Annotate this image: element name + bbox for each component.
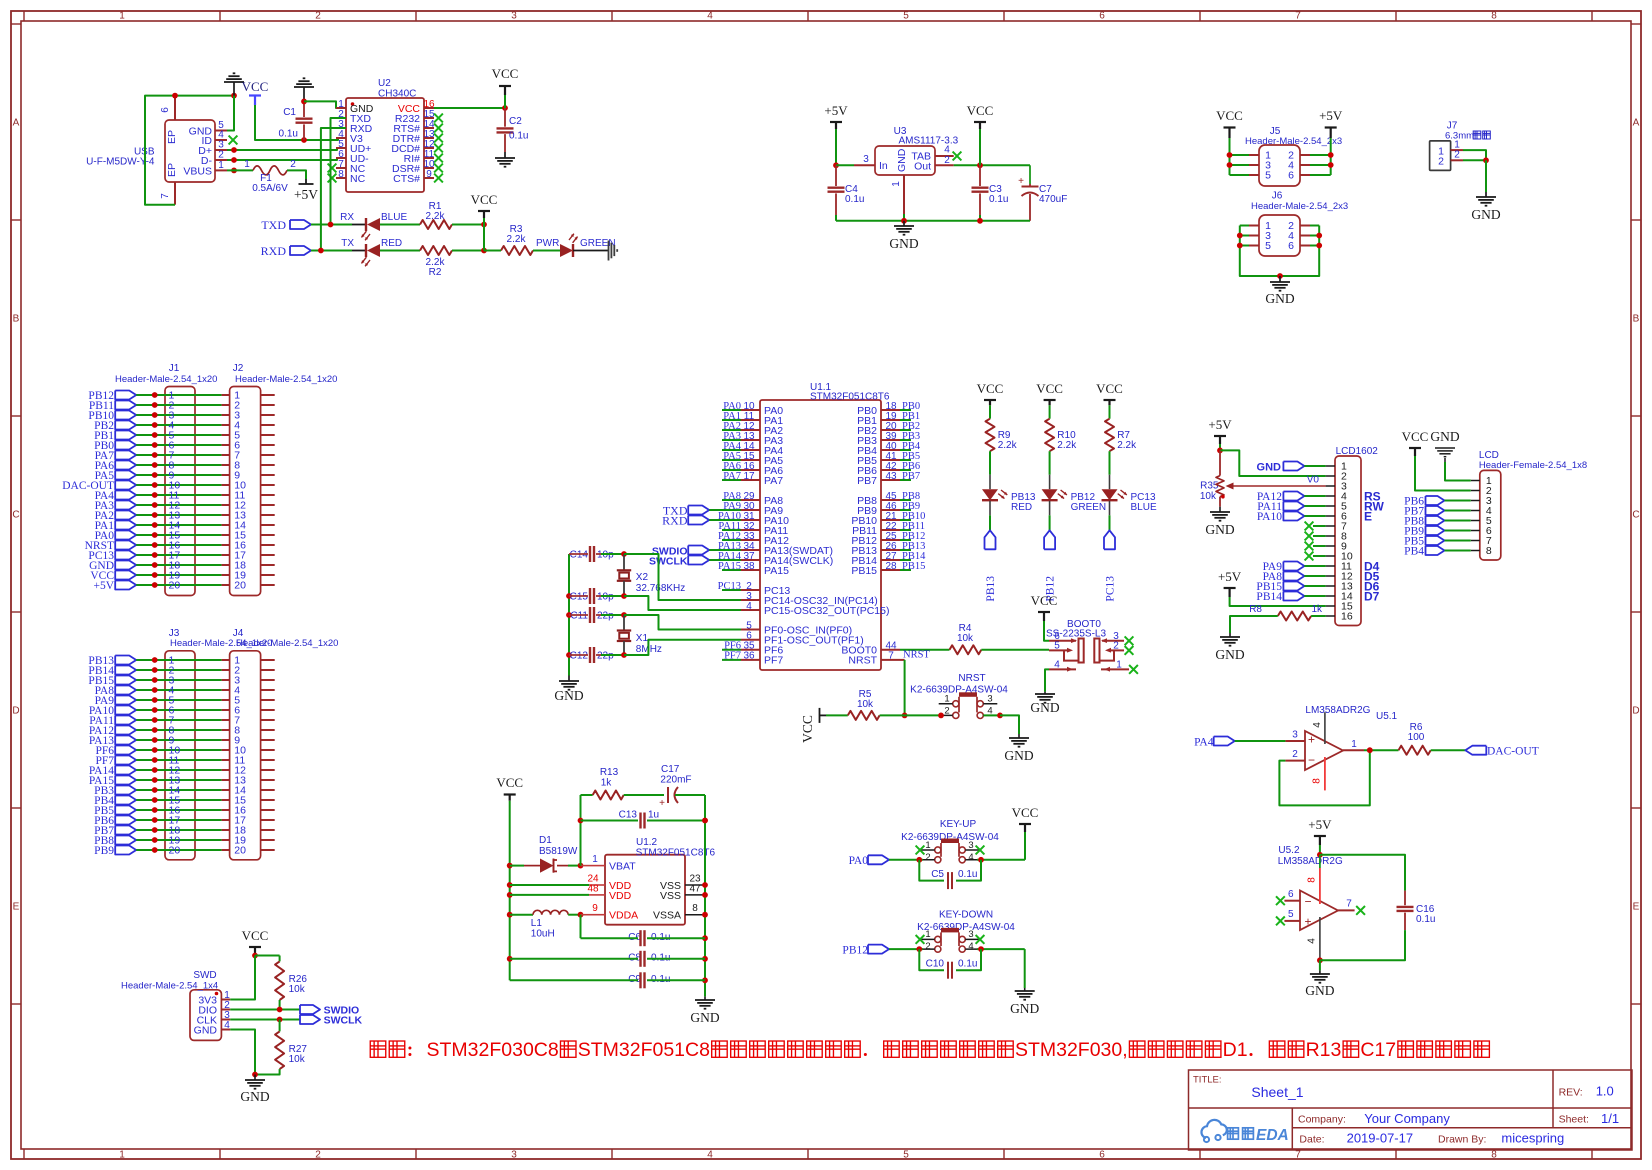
- svg-text:8: 8: [338, 169, 344, 180]
- net flag DAC-OUT (J1 pin 10): [115, 481, 136, 490]
- wire VCC16 to C2: [434, 107, 505, 109]
- svg-text:8: 8: [1491, 11, 1497, 22]
- svg-text:+: +: [1304, 915, 1311, 929]
- svg-text:7: 7: [160, 193, 171, 199]
- resistor R26 10k: [255, 955, 280, 957]
- wire Out to VCC rail: [954, 164, 1030, 166]
- svg-text:5: 5: [1288, 909, 1294, 920]
- wire J1 row 13: [136, 514, 221, 516]
- wire J1 row 11: [136, 494, 221, 496]
- crystal X1 8MHz: [623, 615, 625, 631]
- net flag PB8: [1426, 516, 1445, 525]
- wire J3 row 5: [136, 699, 221, 701]
- svg-text:17: 17: [743, 471, 755, 482]
- net flag TXD: [290, 220, 311, 229]
- capacitor C16 0.1u: [1320, 855, 1405, 891]
- J7 pin 2: [1451, 159, 1463, 161]
- svg-text:0.1u: 0.1u: [1416, 914, 1435, 925]
- svg-text:8: 8: [1486, 545, 1492, 557]
- svg-text:GREEN: GREEN: [1071, 502, 1107, 513]
- vertical VCC to PWR row: [483, 225, 485, 251]
- svg-text:B: B: [13, 314, 20, 325]
- net flag PB7 (J3 pin 18): [115, 826, 136, 835]
- junction dots on USB data pins: [231, 147, 237, 153]
- net flag SWDIO: [300, 1005, 320, 1014]
- J4 pin 8 stub: [222, 729, 230, 731]
- svg-text:4: 4: [1312, 722, 1323, 728]
- svg-text:VDD: VDD: [609, 890, 632, 902]
- svg-text:GND: GND: [690, 1010, 719, 1025]
- svg-text:C13: C13: [619, 810, 638, 821]
- svg-text:VCC: VCC: [1036, 381, 1063, 396]
- CH340C pin 13 DTR#: [424, 137, 434, 139]
- svg-text:RXD: RXD: [261, 244, 287, 258]
- U1.1 pin 44 BOOT0: [881, 649, 900, 651]
- net flag PA9 (J3 pin 5): [115, 696, 136, 705]
- U1.1 pin 31 PA10: [741, 519, 760, 521]
- net flag NRST (J1 pin 16): [115, 541, 136, 550]
- svg-text:LCD1602: LCD1602: [1336, 446, 1379, 457]
- svg-text:8: 8: [692, 903, 698, 914]
- svg-text:BLUE: BLUE: [1131, 502, 1157, 513]
- svg-text:VBAT: VBAT: [609, 861, 636, 873]
- LCD header pin 5: [1471, 520, 1480, 522]
- svg-text:10k: 10k: [289, 1054, 306, 1065]
- svg-text:C17: C17: [1360, 1039, 1396, 1061]
- U1.1 pin 30 PA9: [741, 509, 760, 511]
- wire J3 row 3: [136, 679, 221, 681]
- LCD1602 pin 15: [1326, 605, 1335, 607]
- svg-text:9: 9: [592, 903, 598, 914]
- wire GND to pin1: [1445, 462, 1471, 481]
- wire to R2: [380, 250, 420, 252]
- U1.1 pin 10 PA0: [741, 409, 760, 411]
- svg-text:4: 4: [707, 1150, 713, 1161]
- svg-text:D1: D1: [1223, 1039, 1248, 1061]
- svg-text:C14: C14: [570, 550, 589, 561]
- U1.1 pin 34 PA13(SWDAT): [741, 549, 760, 551]
- U1.1 pin 46 PB9: [881, 509, 900, 511]
- J2 pin 20 stub: [222, 584, 230, 586]
- svg-text:Your Company: Your Company: [1364, 1111, 1450, 1126]
- svg-text:GND: GND: [1471, 207, 1500, 222]
- net flag PB14: [1283, 592, 1304, 601]
- SWD pin 2 DIO: [221, 1009, 230, 1011]
- svg-text:CTS#: CTS#: [393, 173, 420, 185]
- net flag PB7: [1426, 506, 1445, 515]
- svg-text:VCC: VCC: [1031, 593, 1058, 608]
- svg-text:VCC: VCC: [496, 775, 523, 790]
- svg-text:C2: C2: [509, 116, 522, 127]
- power flag +5V: [305, 179, 307, 184]
- U1.1 pin 6 PF1-OSC_OUT(PF1): [741, 639, 760, 641]
- wire 3V3 to VCC: [230, 956, 255, 1000]
- svg-text:2: 2: [944, 155, 950, 166]
- wire DIO row: [230, 1009, 300, 1011]
- svg-text:Header-Male-2.54_1x20: Header-Male-2.54_1x20: [235, 374, 337, 385]
- ground J6: [1279, 276, 1281, 282]
- svg-text:C11: C11: [570, 611, 588, 622]
- wire PB12 to button: [889, 948, 923, 950]
- svg-text:U5.2: U5.2: [1278, 845, 1300, 856]
- wire NRST down to R5 row: [900, 659, 905, 661]
- svg-text:8: 8: [1312, 778, 1323, 784]
- fuse F1: [227, 169, 253, 171]
- svg-text:100: 100: [1408, 732, 1425, 743]
- svg-text:+5V: +5V: [1208, 417, 1232, 432]
- net flag PA11: [1283, 502, 1304, 511]
- svg-text:PB9: PB9: [94, 845, 114, 857]
- wire button pin4 to VCC: [977, 859, 1025, 861]
- J2 pin 14 stub: [222, 524, 230, 526]
- svg-text:2: 2: [1454, 150, 1460, 161]
- net flag PA3 (J1 pin 12): [115, 501, 136, 510]
- net flag PA0 (J1 pin 15): [115, 531, 136, 540]
- svg-text:GND: GND: [554, 688, 583, 703]
- U5.2 pin 4 (V-): [1319, 917, 1321, 960]
- wire PA4 to pin3: [1235, 740, 1286, 742]
- svg-text:L1: L1: [531, 918, 543, 929]
- net flag PA8 (J3 pin 4): [115, 686, 136, 695]
- ground BOOT0: [1044, 692, 1046, 694]
- IC U2 CH340C: [346, 98, 424, 192]
- svg-text:470uF: 470uF: [1039, 194, 1067, 205]
- svg-text:STM32F030,: STM32F030,: [1015, 1039, 1128, 1061]
- wire J1 row 12: [136, 504, 221, 506]
- svg-text:20: 20: [234, 580, 246, 592]
- wire J1 row 17: [136, 554, 221, 556]
- svg-text:7: 7: [1346, 899, 1352, 910]
- svg-text:Sheet:: Sheet:: [1559, 1114, 1589, 1126]
- U1.2 pin 1 VBAT: [589, 865, 605, 867]
- svg-text:GND: GND: [194, 1024, 218, 1036]
- svg-text:GND: GND: [1030, 700, 1059, 715]
- CH340C pin 8 NC: [336, 177, 346, 179]
- J4 pin 15 stub: [222, 799, 230, 801]
- USB pin 5 GND: [215, 130, 227, 132]
- wire R4 to switch: [981, 649, 1049, 651]
- J2 pin 19 stub: [222, 574, 230, 576]
- svg-text:1: 1: [891, 181, 902, 187]
- svg-text:GND: GND: [1010, 1001, 1039, 1016]
- J2 pin 16 stub: [222, 544, 230, 546]
- net flag PB8 (J3 pin 19): [115, 836, 136, 845]
- svg-text:8: 8: [1491, 1150, 1497, 1161]
- wire TXD row: [311, 224, 352, 226]
- no-connect rows 7-10: [1305, 522, 1314, 531]
- net flag SWCLK: [300, 1015, 320, 1024]
- J6 pin 5: [1249, 245, 1259, 247]
- net flag PA8: [1283, 572, 1304, 581]
- LCD header pin 1: [1471, 480, 1480, 482]
- svg-text:6: 6: [1288, 889, 1294, 900]
- svg-text:NRST: NRST: [903, 650, 930, 661]
- net flag PA6 (J1 pin 8): [115, 461, 136, 470]
- J2 pin 6 stub: [222, 444, 230, 446]
- U3 pin 2 Out: [935, 164, 954, 166]
- J2 pin 9 stub: [222, 474, 230, 476]
- wire to R1: [380, 224, 420, 226]
- svg-text:VCC: VCC: [977, 381, 1004, 396]
- CH340C pin 3 RXD: [336, 127, 346, 129]
- resistor R10 2.2k: [1045, 419, 1054, 452]
- U1.1 pin 41 PB5: [881, 459, 900, 461]
- ground below C2: [504, 152, 506, 158]
- LCD1602 pin 13: [1326, 585, 1335, 587]
- svg-text:7: 7: [1295, 11, 1301, 22]
- net flag PB1 (J1 pin 5): [115, 431, 136, 440]
- wire VBAT vertical to R13/C13: [580, 795, 582, 866]
- net flag PA5 (J1 pin 9): [115, 471, 136, 480]
- J4 pin 3 stub: [222, 679, 230, 681]
- U1.1 pin 14 PA4: [741, 449, 760, 451]
- svg-text:38: 38: [743, 561, 755, 572]
- net flag PB13: [985, 530, 996, 549]
- svg-text:GND: GND: [896, 148, 908, 172]
- svg-text:1: 1: [244, 159, 250, 170]
- svg-text:X1: X1: [636, 633, 649, 644]
- J4 pin 11 stub: [222, 759, 230, 761]
- U1.1 pin 11 PA1: [741, 419, 760, 421]
- U5.1 pin 3: [1285, 740, 1305, 742]
- svg-text:Out: Out: [914, 160, 931, 172]
- svg-text:TX: TX: [341, 238, 354, 249]
- U3 pin 4 TAB: [935, 155, 954, 157]
- SWD pin 3 CLK: [221, 1019, 230, 1021]
- ground U3: [903, 221, 905, 226]
- svg-text:B: B: [1633, 314, 1640, 325]
- svg-text:GND: GND: [240, 1089, 269, 1104]
- wire J5 left vertical: [1229, 138, 1231, 175]
- svg-text:PB14: PB14: [1256, 591, 1282, 603]
- resistor R9 2.2k: [986, 419, 995, 452]
- net flag PB14 (J3 pin 2): [115, 666, 136, 675]
- svg-text:+5V: +5V: [93, 580, 114, 592]
- svg-text:4: 4: [944, 145, 950, 156]
- svg-text:Date:: Date:: [1299, 1134, 1324, 1146]
- J4 pin 9 stub: [222, 739, 230, 741]
- net flag PA11 (J3 pin 7): [115, 716, 136, 725]
- capacitor C4: [835, 165, 837, 186]
- svg-text:0.1u: 0.1u: [845, 194, 864, 205]
- wire J3 row 17: [136, 819, 221, 821]
- wire J1 row 9: [136, 474, 221, 476]
- svg-text:NRST: NRST: [848, 655, 877, 667]
- J2 pin 7 stub: [222, 454, 230, 456]
- svg-text:VDDA: VDDA: [609, 910, 638, 922]
- LCD header pin 8: [1471, 550, 1480, 552]
- net flag PB5 (J3 pin 16): [115, 806, 136, 815]
- junction J6 gnd: [1277, 273, 1283, 279]
- svg-text:+: +: [659, 798, 665, 809]
- LCD1602 pin 9: [1326, 545, 1335, 547]
- U1.1 pin 17 PA7: [741, 479, 760, 481]
- wire J5 right vertical: [1330, 138, 1332, 175]
- net flag PB9 (J3 pin 20): [115, 846, 136, 855]
- svg-text:+: +: [1308, 733, 1315, 747]
- U5.1 pin 1: [1343, 749, 1364, 751]
- svg-text:1: 1: [944, 694, 949, 705]
- svg-text:4: 4: [968, 852, 973, 863]
- svg-text:REV:: REV:: [1559, 1087, 1583, 1099]
- svg-text:PWR: PWR: [536, 238, 559, 249]
- J6 pin 6: [1300, 245, 1310, 247]
- switch pin 5: [1049, 649, 1070, 651]
- CH340C pin 4 V3: [336, 137, 346, 139]
- svg-text:STM32F051C8T6: STM32F051C8T6: [636, 848, 716, 859]
- svg-text:5: 5: [903, 1150, 909, 1161]
- switch pin 6: [1049, 640, 1076, 642]
- wire J3 row 2: [136, 669, 221, 671]
- svg-text:2.2k: 2.2k: [998, 440, 1018, 451]
- svg-text:3: 3: [863, 154, 869, 165]
- svg-text:NRST: NRST: [958, 673, 985, 684]
- wire VCC to pin2: [1415, 456, 1471, 491]
- junction: [172, 93, 178, 99]
- svg-text:3: 3: [511, 1150, 517, 1161]
- wire RXD row: [311, 250, 352, 252]
- svg-text:U1.2: U1.2: [636, 837, 658, 848]
- net flag RXD (MCU): [688, 516, 709, 525]
- J4 pin 19 stub: [222, 839, 230, 841]
- svg-text:D7: D7: [1364, 590, 1380, 604]
- net flag PC13: [1104, 530, 1115, 549]
- U1.1 pin 2 PC13: [741, 589, 760, 591]
- J2 pin 12 stub: [222, 504, 230, 506]
- U5.1 pin 8 (V-): [1324, 757, 1326, 790]
- wire J1 row 18: [136, 564, 221, 566]
- svg-text:GND: GND: [1257, 462, 1282, 474]
- U1.1 pin 20 PB2: [881, 429, 900, 431]
- wire C1 to CH340C GND pin1: [304, 101, 346, 108]
- svg-text:10uH: 10uH: [531, 929, 555, 940]
- net flag PB5: [1426, 536, 1445, 545]
- net flag PA4: [1214, 737, 1235, 746]
- ground R35: [1219, 507, 1221, 512]
- svg-text:LM358ADR2G: LM358ADR2G: [1305, 705, 1370, 716]
- svg-text:V0: V0: [1307, 475, 1320, 486]
- svg-text:28: 28: [885, 561, 897, 572]
- svg-text:1: 1: [119, 11, 125, 22]
- wire J1 row 14: [136, 524, 221, 526]
- wire J3 row 6: [136, 709, 221, 711]
- U1.1 pin 16 PA6: [741, 469, 760, 471]
- wire J1 row 5: [136, 434, 221, 436]
- J6 pin 1: [1249, 225, 1259, 227]
- net flag PF7 (J3 pin 11): [115, 756, 136, 765]
- CH340C pin 10 DSR#: [424, 167, 434, 169]
- svg-text:2: 2: [218, 150, 224, 161]
- wire VDD rows: [510, 884, 589, 886]
- wire +5V to LCD pin15: [1230, 597, 1326, 606]
- svg-text:20: 20: [234, 845, 246, 857]
- svg-text:U2: U2: [378, 78, 391, 89]
- LCD1602 pin 11: [1326, 565, 1335, 567]
- header J6 2x3: [1259, 215, 1300, 256]
- svg-text:VSS: VSS: [660, 890, 681, 902]
- svg-text:VCC: VCC: [1096, 381, 1123, 396]
- J2 pin 13 stub: [222, 514, 230, 516]
- svg-text:PA10: PA10: [1257, 511, 1282, 523]
- wire CLK row: [230, 1019, 300, 1021]
- J4 pin 12 stub: [222, 769, 230, 771]
- svg-text:1k: 1k: [1312, 604, 1324, 615]
- wire BOOT0 to R4: [900, 649, 950, 651]
- svg-text:VBUS: VBUS: [183, 165, 212, 177]
- U5.2 pin 7: [1338, 909, 1355, 911]
- net flag PA2 (J1 pin 13): [115, 511, 136, 520]
- wire X1 top to PF0: [624, 615, 741, 630]
- wire J1 row 20: [136, 584, 221, 586]
- svg-text:C15: C15: [570, 592, 589, 603]
- U1.1 pin 18 PB0: [881, 409, 900, 411]
- wire TXD net vertical: [331, 118, 347, 225]
- U1.1 pin 21 PB10: [881, 519, 900, 521]
- svg-text:Company:: Company:: [1298, 1114, 1346, 1126]
- svg-text:PB13: PB13: [985, 576, 997, 602]
- U5.2 pin 8 (V+): [1319, 855, 1321, 868]
- LCD1602 pin 7: [1326, 525, 1335, 527]
- svg-text:20: 20: [169, 845, 181, 857]
- svg-text:R8: R8: [1249, 604, 1262, 615]
- svg-text:C: C: [1632, 510, 1639, 521]
- J7 pin 1: [1451, 149, 1463, 151]
- svg-text:1: 1: [119, 1150, 125, 1161]
- U1.1 pin 38 PA15: [741, 569, 760, 571]
- switch pin 1: [1101, 668, 1129, 670]
- ground NRST button: [1018, 734, 1020, 738]
- J4 pin 2 stub: [222, 669, 230, 671]
- svg-text:VCC: VCC: [1402, 429, 1429, 444]
- net flag PB13 (J3 pin 1): [115, 656, 136, 665]
- J5 pin 6: [1300, 174, 1310, 176]
- J5 pin 5: [1249, 174, 1259, 176]
- U1.2 pin 48 VDD: [589, 894, 605, 896]
- svg-text:TXD: TXD: [261, 218, 286, 232]
- wire R2 to junction: [452, 250, 484, 252]
- net flag PA12 (J3 pin 8): [115, 726, 136, 735]
- svg-text:GREEN: GREEN: [580, 238, 616, 249]
- J2 pin 18 stub: [222, 564, 230, 566]
- svg-text:VCC: VCC: [1216, 108, 1243, 123]
- J4 pin 6 stub: [222, 709, 230, 711]
- USB pin 3 D+: [215, 149, 227, 151]
- LCD1602 pin 5: [1326, 505, 1335, 507]
- svg-text:J6: J6: [1272, 191, 1283, 202]
- J5 pin 3: [1249, 164, 1259, 166]
- svg-text:3: 3: [511, 11, 517, 22]
- CH340C pin 7 NC: [336, 167, 346, 169]
- svg-text:4: 4: [746, 601, 752, 612]
- svg-text:PA0: PA0: [849, 855, 869, 867]
- resistor R27 10k: [279, 1020, 281, 1032]
- svg-text:A: A: [1633, 118, 1640, 129]
- U1.1 pin 4 PC15-OSC32_OUT(PC15): [741, 609, 760, 611]
- LCD header pin 7: [1471, 540, 1480, 542]
- svg-text:R13: R13: [600, 767, 619, 778]
- svg-text:2: 2: [944, 706, 949, 717]
- ground SWD: [254, 1075, 256, 1081]
- net flag PC13 (J1 pin 17): [115, 551, 136, 560]
- junction: [301, 99, 307, 105]
- svg-text:+5V: +5V: [294, 187, 318, 202]
- net flag GND (J1 pin 18): [115, 561, 136, 570]
- svg-text:2: 2: [925, 852, 930, 863]
- USB pin 7 EP bottom: [174, 182, 176, 205]
- svg-text:SWD: SWD: [193, 970, 216, 981]
- header J5 2x3: [1259, 145, 1300, 186]
- net flag PB12: [868, 945, 889, 954]
